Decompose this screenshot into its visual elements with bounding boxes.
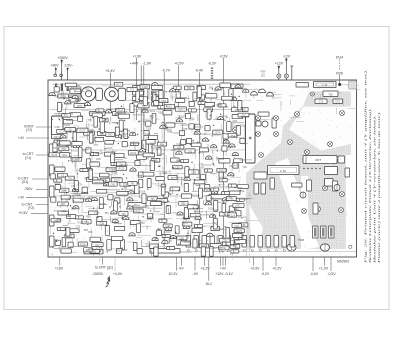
svg-text:R26: R26 [336, 71, 343, 75]
resistor [191, 143, 201, 147]
transistor [123, 216, 129, 219]
diode [181, 159, 189, 162]
svg-text:T69: T69 [243, 166, 248, 169]
wire +250V with arrow [61, 60, 63, 81]
wire -9V [181, 257, 183, 266]
capacitor small [229, 206, 234, 211]
resistor [106, 132, 115, 136]
transistor [73, 144, 79, 147]
solder pad dots [51, 85, 243, 252]
svg-text:D77: D77 [94, 144, 99, 147]
resistor [183, 222, 192, 226]
wire -12V with arrow [285, 58, 287, 80]
svg-text:C27: C27 [60, 131, 65, 134]
resistor vertical [144, 89, 148, 100]
wire to CRT g1 [102, 257, 104, 265]
diode [111, 162, 119, 165]
svg-text:R17: R17 [116, 84, 121, 87]
svg-text:D125: D125 [51, 154, 57, 157]
svg-text:T110: T110 [146, 128, 152, 131]
dot row right of C56 [303, 168, 305, 170]
resistor [51, 218, 61, 222]
transistor [232, 152, 238, 155]
capacitor small [82, 187, 87, 192]
diode [75, 216, 83, 219]
diode [204, 169, 212, 172]
svg-text:3kV: 3kV [261, 75, 266, 78]
svg-text:C80: C80 [111, 183, 116, 186]
svg-text:C 39: C 39 [322, 83, 328, 87]
svg-text:(Y2): (Y2) [28, 206, 34, 210]
resistor [168, 176, 177, 180]
capacitor small [144, 131, 149, 136]
svg-text:-0,7V: -0,7V [162, 69, 171, 73]
svg-text:R53: R53 [218, 228, 223, 231]
tall pin top-right [291, 66, 293, 81]
capacitor small [205, 126, 210, 131]
svg-text:C92: C92 [67, 215, 72, 218]
capacitor C71 [333, 99, 343, 104]
resistor [70, 229, 80, 233]
transistor [194, 131, 200, 134]
leader -760V [36, 188, 48, 190]
capacitor small [236, 211, 241, 216]
transistor [103, 183, 109, 186]
svg-text:C25: C25 [234, 125, 239, 128]
resistor [190, 213, 200, 217]
svg-text:R71: R71 [64, 115, 69, 118]
transistor [205, 202, 211, 205]
svg-text:DL1: DL1 [206, 282, 212, 286]
resistor [228, 133, 237, 137]
svg-text:T64: T64 [176, 144, 181, 147]
resistor [108, 182, 117, 186]
plane white clearance vertical strip [301, 176, 308, 249]
pad with cross 15 [259, 153, 264, 158]
svg-text:R125: R125 [119, 168, 125, 171]
capacitor small [51, 197, 56, 202]
svg-text:T127: T127 [94, 212, 100, 215]
vertical resistor row bottom [186, 236, 191, 248]
resistor upper right zone 1 [258, 112, 269, 116]
resistor [140, 85, 150, 89]
capacitor small [146, 121, 151, 126]
svg-text:D74: D74 [215, 132, 220, 135]
resistor vertical [184, 207, 188, 218]
leader to CNT Y2 [36, 204, 48, 206]
pad with cross 5 [256, 132, 261, 137]
resistor [55, 167, 65, 171]
svg-text:BA a: BA a [134, 203, 140, 207]
svg-text:D127: D127 [236, 230, 242, 233]
resistor [221, 96, 232, 100]
svg-text:R76: R76 [76, 158, 81, 161]
resistor [177, 236, 187, 240]
svg-text:C115: C115 [176, 160, 182, 163]
resistor [90, 162, 100, 166]
resistor [232, 114, 243, 118]
resistor [231, 108, 242, 112]
tab right of T12 [118, 88, 125, 100]
svg-text:D122: D122 [130, 152, 136, 155]
resistor vertical [53, 143, 57, 152]
resistor [72, 142, 82, 146]
resistor [189, 170, 200, 174]
pad with cross 8 [301, 193, 306, 198]
transistor [127, 206, 133, 209]
resistor vertical [143, 97, 147, 106]
svg-text:T71: T71 [130, 89, 135, 92]
resistor [112, 236, 123, 240]
svg-text:+9V: +9V [220, 267, 227, 271]
wire triple +9V [220, 257, 222, 266]
resistor long box R73 [84, 249, 103, 254]
wire -6V [194, 257, 196, 271]
resistor vertical [207, 109, 211, 119]
resistor [146, 140, 155, 144]
resistor [233, 203, 244, 207]
resistor vertical [176, 92, 180, 102]
pad with cross 6 [274, 132, 279, 137]
transistor [177, 212, 183, 215]
svg-text:C17: C17 [170, 96, 175, 99]
resistor vertical [139, 179, 143, 187]
trace texture right-top area [253, 85, 360, 132]
mounting hole bottom right [349, 245, 352, 248]
svg-text:T52: T52 [141, 222, 146, 225]
transistor [162, 240, 168, 243]
svg-text:+3V: +3V [18, 196, 25, 200]
resistor vertical [133, 243, 137, 251]
resistor vertical [66, 227, 70, 236]
wire +12V with arrow [278, 65, 280, 80]
capacitor small [189, 124, 194, 129]
transistor [223, 140, 229, 143]
resistor [206, 94, 217, 98]
resistor vertical [124, 129, 128, 139]
output box trio 1 [313, 226, 319, 238]
dashed wire -1500V [114, 257, 116, 271]
transistor [183, 225, 189, 228]
resistor [65, 127, 76, 131]
diode [80, 168, 88, 171]
resistor [128, 182, 137, 186]
resistor [232, 233, 242, 237]
resistor [156, 176, 165, 180]
svg-text:T40: T40 [234, 165, 239, 168]
capacitor small [154, 100, 159, 105]
svg-text:-9,2V: -9,2V [261, 272, 270, 276]
resistor [58, 173, 68, 177]
svg-text:+5,4V: +5,4V [105, 69, 115, 73]
svg-text:C51: C51 [234, 200, 239, 203]
svg-text:C36: C36 [54, 125, 60, 129]
transistor [206, 156, 212, 159]
pad with cross 18 [328, 142, 333, 147]
capacitor small [135, 160, 140, 165]
connector pins top-left [55, 84, 57, 92]
resistor vertical [226, 228, 230, 239]
capacitor small [179, 130, 184, 135]
svg-text:C101: C101 [143, 205, 149, 208]
transistor [229, 144, 235, 147]
svg-text:-0,5V: -0,5V [219, 54, 228, 58]
capacitor small [205, 185, 210, 190]
resistor [163, 224, 172, 228]
pad with cross 4 [274, 116, 279, 121]
resistor vertical [214, 201, 218, 212]
output box trio 3 [329, 226, 335, 238]
resistor [147, 197, 157, 201]
resistor [65, 176, 74, 180]
pad above edge B [60, 74, 63, 77]
resistor vertical [114, 201, 118, 212]
capacitor C40 top-right [296, 83, 309, 88]
svg-text:+1,0V: +1,0V [319, 266, 329, 270]
board edge tab gray [349, 81, 357, 89]
transistor [184, 177, 190, 180]
resistor [130, 221, 140, 225]
diode [195, 224, 203, 227]
pad with cross 12 [302, 209, 307, 214]
resistor [220, 238, 231, 242]
resistor [219, 212, 230, 216]
svg-text:+4,0V: +4,0V [113, 272, 123, 276]
transistor [65, 101, 71, 104]
resistor [99, 173, 109, 177]
svg-text:R126: R126 [151, 147, 157, 150]
svg-text:C48: C48 [149, 217, 154, 220]
svg-text:D68: D68 [199, 167, 204, 170]
svg-text:D51: D51 [116, 249, 121, 252]
wire -0.7V [163, 72, 165, 248]
resistor vertical [154, 247, 158, 256]
resistor [84, 248, 93, 252]
capacitor small [147, 213, 152, 218]
wire -0.5V bottom right [330, 257, 332, 271]
svg-text:C83: C83 [168, 239, 173, 242]
output box trio 2 [321, 226, 327, 238]
capacitor small [181, 140, 186, 145]
svg-text:R107: R107 [123, 165, 129, 168]
resistor vertical [94, 116, 98, 127]
resistor [149, 135, 158, 139]
resistor [65, 83, 77, 87]
svg-text:D84: D84 [89, 129, 94, 132]
svg-text:+44V: +44V [130, 62, 139, 66]
svg-text:CNT: CNT [315, 158, 321, 162]
transistor T63 box [323, 91, 338, 97]
box left of C56 [254, 172, 267, 179]
capacitor small [189, 102, 194, 107]
resistor vertical [238, 101, 242, 110]
resistor [164, 104, 174, 108]
svg-text:-0,4V: -0,4V [195, 69, 204, 73]
resistor R105 [292, 183, 303, 187]
transistor [165, 227, 171, 230]
resistor [238, 113, 249, 117]
svg-text:R71: R71 [242, 89, 247, 92]
svg-text:D64: D64 [190, 119, 195, 122]
svg-text:C39: C39 [192, 171, 197, 174]
svg-text:(Y1): (Y1) [25, 156, 31, 160]
resistor [235, 240, 246, 244]
transistor [105, 110, 111, 113]
resistor [90, 249, 100, 253]
heatsink bracket [70, 86, 81, 102]
capacitor small [163, 192, 168, 197]
capacitor C56 long box [268, 166, 300, 175]
capacitor small [137, 249, 142, 254]
transistor can T11 [81, 87, 95, 101]
svg-text:R26: R26 [164, 127, 169, 130]
transistor [211, 191, 217, 194]
resistor vertical [89, 169, 93, 180]
wire +0.5V [178, 65, 180, 110]
resistor [119, 211, 128, 215]
resistor vertical [74, 181, 78, 190]
svg-text:D52: D52 [62, 148, 67, 151]
svg-text:C70: C70 [319, 101, 324, 104]
resistor [227, 196, 237, 200]
wire -0.5V [222, 58, 224, 240]
pad above edge A [54, 74, 57, 77]
transistor [209, 214, 215, 217]
svg-text:R45: R45 [88, 231, 93, 234]
resistor vertical [150, 160, 154, 170]
wire +1.0V [324, 257, 326, 266]
svg-text:C22: C22 [55, 219, 60, 222]
bus trace horizontal 3 [48, 195, 208, 197]
designator text scatter [53, 87, 247, 253]
wire left pin 1 with arrow [55, 68, 57, 76]
resistor [73, 198, 83, 202]
svg-text:T19: T19 [136, 210, 141, 213]
transistor oval bottom 1 [287, 244, 296, 251]
capacitor C39 long top-right [314, 82, 337, 88]
resistor [184, 86, 194, 90]
copper plane top lobe [303, 92, 351, 107]
connector CNT box [303, 156, 337, 164]
svg-text:+12V -0,4V: +12V -0,4V [215, 272, 233, 276]
capacitor small [187, 138, 192, 143]
svg-text:D109: D109 [218, 158, 224, 161]
resistor vertical [78, 147, 82, 157]
resistor upper right zone 2 [272, 118, 276, 128]
resistor [205, 102, 215, 106]
svg-text:D28: D28 [75, 99, 80, 102]
transistor [84, 102, 90, 105]
leader +0.5V [31, 212, 48, 214]
resistor vertical [136, 224, 140, 233]
resistor vertical [159, 91, 163, 99]
resistor vertical [73, 132, 77, 141]
resistor [220, 83, 231, 87]
resistor [71, 158, 82, 162]
capacitor C16 [69, 98, 78, 103]
transistor [243, 89, 249, 92]
capacitor small [86, 148, 91, 153]
svg-text:C28: C28 [146, 245, 151, 248]
svg-text:R41: R41 [139, 152, 144, 155]
diode [218, 104, 226, 107]
wire +3.2V [204, 257, 206, 266]
svg-text:R11: R11 [205, 92, 210, 95]
resistor [194, 180, 205, 184]
capacitor small [117, 249, 122, 254]
svg-text:T63: T63 [328, 92, 333, 96]
svg-text:R97: R97 [187, 87, 192, 90]
capacitor small [54, 87, 59, 92]
transistor [176, 151, 182, 154]
resistor [138, 104, 149, 108]
resistor [58, 94, 69, 98]
resistor vertical [201, 247, 205, 256]
resistor vertical [193, 239, 197, 248]
transistor [129, 132, 135, 135]
svg-text:2,5V~: 2,5V~ [65, 64, 74, 68]
transistor [73, 206, 79, 209]
svg-text:C114: C114 [145, 133, 151, 136]
wire pair under -1.9V [140, 65, 142, 150]
diode [167, 246, 175, 249]
pad with cross 10 [335, 185, 340, 190]
transistor [142, 109, 148, 112]
resistor [97, 132, 106, 136]
svg-text:T54: T54 [231, 135, 236, 138]
transistor [139, 149, 145, 152]
resistor [127, 87, 137, 91]
resistor [49, 153, 60, 157]
plane white right margin [346, 155, 352, 250]
resistor [230, 245, 240, 249]
svg-text:C78: C78 [214, 209, 219, 212]
resistor vertical [185, 167, 189, 177]
svg-text:-12V: -12V [283, 54, 291, 58]
transistor [49, 92, 55, 95]
resistor vertical [198, 188, 202, 198]
transistor [160, 125, 166, 128]
transistor T103 [267, 93, 274, 96]
svg-text:+18V: +18V [55, 267, 64, 271]
transistor [222, 198, 228, 201]
diode [222, 191, 230, 194]
resistor [105, 141, 114, 145]
svg-text:MA2903: MA2903 [337, 259, 349, 263]
tab between cans [96, 88, 103, 100]
resistor [181, 241, 191, 245]
svg-text:+0,5V: +0,5V [250, 267, 260, 271]
bus trace top inside edge [52, 83, 250, 85]
bus trace horizontal 2 [48, 149, 246, 151]
svg-text:D87: D87 [61, 203, 66, 206]
interconnect wires [54, 86, 252, 256]
transistor [60, 135, 66, 138]
svg-text:D60: D60 [163, 172, 168, 175]
resistor [157, 198, 168, 202]
transistor [211, 145, 217, 148]
resistor [197, 86, 206, 90]
svg-text:- 6V: - 6V [192, 272, 199, 276]
resistor vertical [166, 205, 170, 213]
transistor T102a [251, 92, 258, 95]
resistor [179, 202, 188, 206]
transistor right plane 2 [300, 192, 306, 198]
svg-text:(X1): (X1) [22, 180, 28, 184]
resistor [185, 149, 195, 153]
wire right pin [67, 68, 69, 81]
resistor vertical [193, 92, 197, 101]
